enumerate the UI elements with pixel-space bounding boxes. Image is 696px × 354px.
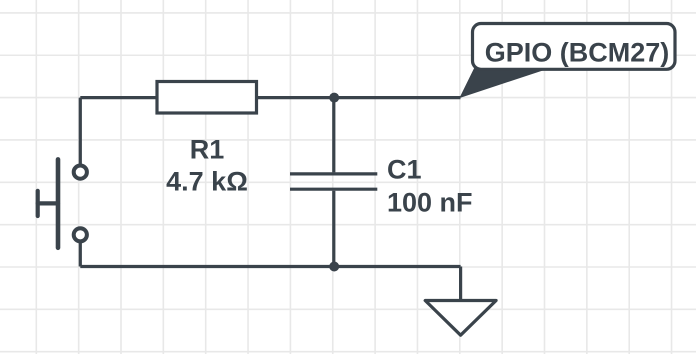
value 100 nF	[387, 187, 473, 217]
callout GPIO (BCM27)	[473, 24, 676, 70]
wire: bottom net from button to ground	[80, 265, 460, 268]
svg-text:C1: C1	[387, 154, 422, 184]
label C1	[387, 154, 422, 184]
wire: capacitor bottom lead	[332, 191, 335, 267]
svg-text:4.7 kΩ: 4.7 kΩ	[166, 167, 248, 197]
junction node at bottom (button/C1/ground)	[329, 262, 339, 272]
callout tail	[460, 69, 547, 98]
junction node at top (R1/C1/GPIO)	[329, 93, 339, 103]
pushbutton switch	[38, 159, 87, 247]
svg-text:GPIO (BCM27): GPIO (BCM27)	[485, 38, 670, 68]
wire: button bottom lead	[79, 243, 82, 267]
value 4.7 kΩ	[166, 167, 248, 197]
wire: button top lead	[79, 98, 82, 165]
svg-text:100 nF: 100 nF	[387, 187, 473, 217]
wire: capacitor top lead	[332, 98, 335, 173]
capacitor C1	[290, 174, 377, 189]
ground	[425, 301, 496, 336]
wire: ground lead	[459, 267, 462, 302]
resistor R1	[157, 82, 257, 114]
svg-text:R1: R1	[190, 135, 225, 165]
label R1	[190, 135, 225, 165]
wire: top net from button to GPIO	[80, 96, 460, 99]
